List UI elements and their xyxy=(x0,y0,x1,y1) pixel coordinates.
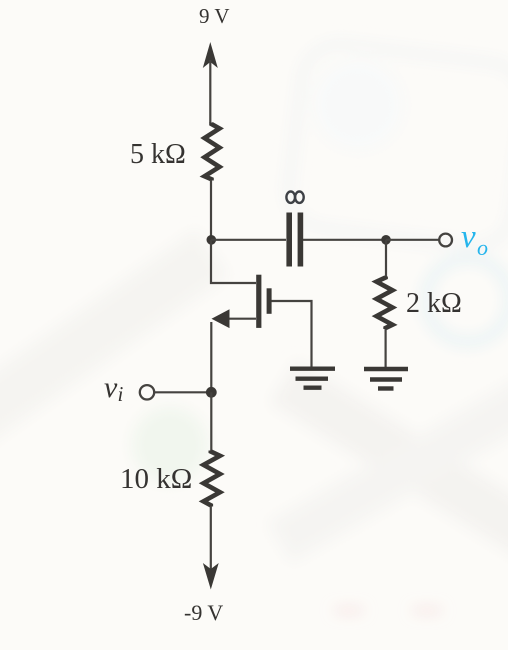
wire node B down to R3 xyxy=(385,240,387,277)
wire xyxy=(210,180,212,241)
svg-text:v: v xyxy=(104,371,118,404)
arrow to +9V xyxy=(203,42,218,68)
watermark blob top xyxy=(313,60,403,150)
svg-text:5 kΩ: 5 kΩ xyxy=(130,139,186,170)
wire node A down and to transistor drain xyxy=(211,240,256,283)
resistor R3 2 kOhm xyxy=(377,277,393,330)
transistor Q1 channel bar xyxy=(256,275,261,328)
wire node C to R2 xyxy=(210,392,212,451)
node C (input node) xyxy=(206,387,217,398)
wire source down to input node xyxy=(210,322,212,393)
input terminal circle xyxy=(140,385,154,399)
svg-text:9 V: 9 V xyxy=(199,4,230,28)
svg-text:10 kΩ: 10 kΩ xyxy=(120,463,192,495)
arrow to -9V xyxy=(203,563,219,590)
svg-text:-9 V: -9 V xyxy=(184,600,223,625)
watermark crossed band bottom right 1 xyxy=(271,360,508,572)
svg-text:i: i xyxy=(118,382,124,406)
watermark green circle xyxy=(132,407,208,483)
resistor R2 10 kOhm xyxy=(204,451,221,507)
wire xyxy=(209,60,211,123)
infinity value label xyxy=(286,192,303,203)
wire R2 down to -9V arrow xyxy=(210,506,212,570)
svg-text:o: o xyxy=(477,235,488,260)
wire node to output terminal xyxy=(386,239,439,241)
ground (gate) xyxy=(290,369,335,388)
node B (output node) xyxy=(381,235,391,245)
capacitor C1 (infinity) plates xyxy=(286,213,292,267)
node A (drain node) xyxy=(207,235,217,245)
resistor R1 5 kOhm xyxy=(205,123,220,181)
source wire with arrow xyxy=(226,318,256,320)
ground (under R3) xyxy=(364,369,408,389)
wire input terminal to node C xyxy=(155,391,212,393)
output terminal circle xyxy=(439,234,452,247)
transistor Q1 gate bar xyxy=(267,288,272,314)
gate wire to ground xyxy=(272,301,312,369)
wire node to capacitor xyxy=(211,239,286,241)
svg-text:v: v xyxy=(461,219,476,255)
watermark crossed band bottom right 2 xyxy=(269,363,508,562)
source arrowhead xyxy=(212,309,230,328)
watermark pink dashes xyxy=(335,608,363,613)
watermark teal ring xyxy=(426,258,508,342)
wire R3 to ground xyxy=(385,329,387,369)
watermark rounded square top right xyxy=(284,40,508,251)
watermark diagonal band left xyxy=(0,230,228,447)
svg-text:2 kΩ: 2 kΩ xyxy=(406,288,462,319)
wire capacitor to output node xyxy=(303,239,386,241)
